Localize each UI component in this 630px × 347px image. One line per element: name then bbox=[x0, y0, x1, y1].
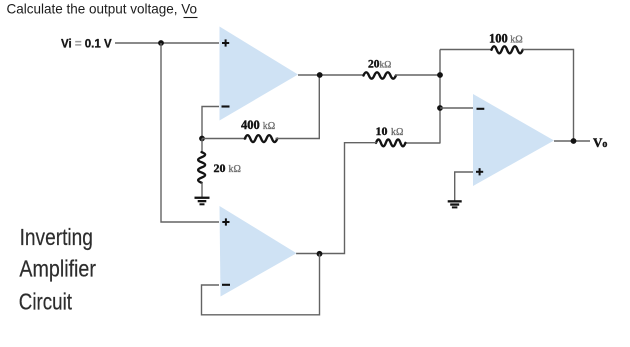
ground G1 bbox=[195, 197, 210, 206]
wire Vi input horizontal bbox=[115, 42, 219, 44]
U1 plus pin bbox=[222, 39, 229, 46]
op-amp U3 bbox=[473, 94, 554, 186]
U3 plus pin bbox=[476, 168, 483, 175]
title: Calculate the output voltage, Vo bbox=[7, 1, 198, 17]
node Vi junction dot bbox=[158, 40, 164, 46]
resistor R 20k horizontal zigzag bbox=[364, 72, 396, 78]
wire U1 output bbox=[298, 74, 364, 76]
wire 10k left down to U2 output bbox=[296, 143, 377, 254]
svg-text:100kΩ: 100kΩ bbox=[489, 31, 523, 45]
caption Inverting Amplifier Circuit bbox=[19, 224, 96, 314]
U2 plus pin bbox=[222, 218, 229, 225]
wire Vi vertical down to U2 bbox=[161, 43, 219, 222]
wire 100k feedback left segment bbox=[440, 49, 492, 51]
node U2 output dot bbox=[317, 251, 323, 257]
wire 100k feedback right + down to output bbox=[523, 50, 574, 142]
wire U3 output bbox=[554, 140, 590, 142]
resistor R 10k zigzag bbox=[376, 139, 405, 146]
wire 20k to summing bus bbox=[395, 74, 440, 76]
svg-text:400kΩ: 400kΩ bbox=[241, 118, 275, 132]
wire U1 inverting input bbox=[202, 107, 219, 139]
op-amp U1 bbox=[220, 27, 299, 121]
U1 minus pin bbox=[222, 105, 230, 107]
wire summing bus vertical bbox=[439, 50, 441, 144]
node bus-20k dot bbox=[437, 72, 443, 78]
svg-text:Calculate the output voltage,: Calculate the output voltage, Vo bbox=[7, 1, 198, 16]
svg-text:Vi = 0.1 V: Vi = 0.1 V bbox=[61, 39, 112, 51]
wire feedback left segment bbox=[202, 138, 247, 140]
op-amp U2 bbox=[220, 206, 297, 297]
resistor R 20k vertical zigzag bbox=[198, 152, 205, 183]
U2 minus pin bbox=[222, 284, 230, 286]
wire 20k vertical bottom stub bbox=[201, 183, 203, 198]
wire 20k vertical top stub bbox=[201, 139, 203, 154]
wire U3 non-inverting to ground bbox=[455, 172, 473, 201]
wire feedback right segment up to U1 output bbox=[276, 75, 320, 139]
wire U3 inverting input bbox=[440, 107, 473, 109]
svg-text:Circuit: Circuit bbox=[19, 288, 73, 314]
node bus-inverting dot bbox=[437, 105, 443, 111]
node feedback junction dot bbox=[199, 136, 205, 142]
ground G2 bbox=[448, 200, 462, 208]
wire U2 feedback loop bbox=[202, 254, 320, 315]
resistor R 100k zigzag bbox=[492, 46, 523, 53]
svg-text:20kΩ: 20kΩ bbox=[368, 59, 391, 71]
resistor R 400k zigzag bbox=[245, 135, 277, 142]
node U1 output dot bbox=[317, 72, 323, 78]
svg-text:Amplifier: Amplifier bbox=[19, 256, 96, 282]
node output dot bbox=[571, 138, 577, 144]
svg-text:Inverting: Inverting bbox=[20, 224, 93, 250]
wire bus down to 10k bbox=[405, 142, 440, 144]
U3 minus pin bbox=[477, 108, 485, 110]
